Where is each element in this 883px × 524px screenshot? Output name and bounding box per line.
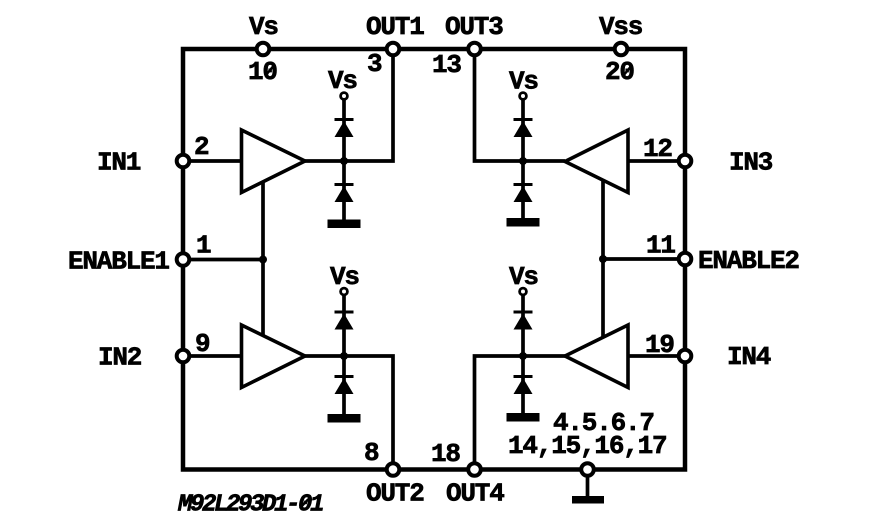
svg-text:OUT3: OUT3: [445, 12, 503, 42]
svg-text:8: 8: [364, 438, 379, 468]
svg-text:10: 10: [248, 57, 277, 87]
svg-text:IN2: IN2: [98, 343, 142, 373]
svg-text:Vs: Vs: [249, 12, 278, 42]
svg-text:OUT4: OUT4: [446, 479, 504, 509]
svg-text:IN1: IN1: [97, 148, 141, 178]
svg-text:Vs: Vs: [328, 66, 357, 96]
svg-text:Vss: Vss: [599, 12, 643, 42]
svg-text:3: 3: [367, 49, 382, 79]
svg-text:IN4: IN4: [727, 342, 771, 372]
svg-text:2: 2: [194, 132, 209, 162]
svg-text:18: 18: [431, 439, 460, 469]
svg-text:12: 12: [643, 134, 672, 164]
svg-text:Vs: Vs: [330, 262, 359, 292]
svg-text:1: 1: [196, 231, 211, 261]
svg-text:13: 13: [432, 50, 461, 80]
svg-text:OUT1: OUT1: [366, 12, 424, 42]
svg-text:Vs: Vs: [509, 67, 538, 97]
svg-text:OUT2: OUT2: [366, 479, 424, 509]
svg-text:ENABLE1: ENABLE1: [68, 247, 169, 277]
svg-text:19: 19: [645, 330, 674, 360]
svg-text:M92L293D1-01: M92L293D1-01: [177, 492, 323, 519]
svg-text:11: 11: [646, 231, 675, 261]
svg-text:20: 20: [605, 57, 634, 87]
svg-text:ENABLE2: ENABLE2: [698, 246, 799, 276]
svg-text:IN3: IN3: [729, 148, 773, 178]
svg-text:9: 9: [195, 329, 210, 359]
svg-text:Vs: Vs: [509, 262, 538, 292]
svg-text:14,15,16,17: 14,15,16,17: [508, 431, 666, 461]
